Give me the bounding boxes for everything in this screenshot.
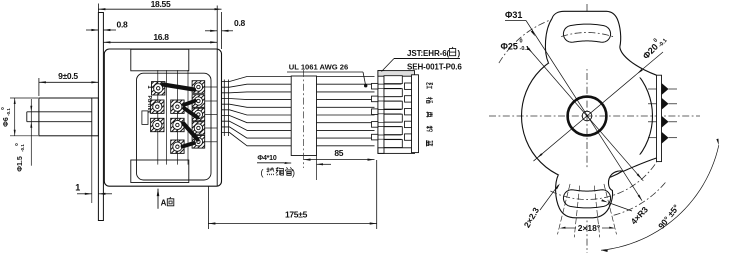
view arrow A xiang (157, 189, 159, 209)
dim phi1.5 (30, 99, 32, 166)
svg-text:85: 85 (334, 148, 343, 158)
wire exit triangles (662, 83, 669, 95)
wire exit housing bar (657, 75, 662, 161)
svg-text:9±0.5: 9±0.5 (58, 71, 78, 81)
top ear slot (563, 24, 610, 42)
coil lead wires vertical (157, 70, 159, 165)
tube length arrow right (317, 163, 332, 165)
phi31 ear arc bottom right dashdot (614, 182, 666, 215)
bottom ear notch curve (624, 158, 657, 171)
jumper wire 3 (185, 109, 198, 118)
motor shaft (27, 111, 92, 113)
small box on PCB (142, 111, 148, 125)
svg-text:A: A (161, 198, 167, 207)
motor body circle phi20 (522, 51, 653, 182)
terminal tips (405, 83, 412, 89)
svg-text:-0.1: -0.1 (20, 144, 25, 152)
connector right strip (412, 75, 419, 153)
top mounting ear (545, 11, 656, 79)
svg-text:Φ4*10: Φ4*10 (257, 155, 276, 162)
wire bundle (222, 77, 375, 82)
jumper wire 2 (184, 101, 195, 105)
jumper wire 5 (183, 143, 195, 147)
svg-text:Φ1.5: Φ1.5 (17, 156, 24, 172)
boss circle phi6 thick (568, 97, 607, 136)
exit pad R3 (192, 108, 205, 121)
jumper wire 4 (184, 124, 198, 140)
dim phi6 (10, 97, 38, 99)
solder pad B2 (171, 100, 184, 113)
connector teeth (384, 76, 402, 84)
tube centerline (303, 70, 305, 168)
dim line phi20 diagonal (533, 52, 663, 161)
dim line phi25 diagonal (527, 47, 644, 181)
solder pad A3 (151, 118, 164, 131)
svg-text:Φ31: Φ31 (505, 10, 522, 20)
svg-text:(: ( (261, 168, 264, 178)
dim 9 pm 0.5 (38, 78, 40, 96)
bolt circle arc through bottom slot (550, 156, 660, 199)
svg-text:UL 1061 AWG 26: UL 1061 AWG 26 (289, 62, 349, 71)
motor can body (104, 49, 221, 186)
tube right edge extension (316, 156, 318, 181)
svg-text:175±5: 175±5 (285, 210, 308, 220)
bearing boss cylinder (39, 98, 99, 136)
svg-text:0.8: 0.8 (234, 18, 245, 28)
solder pad B4 (171, 140, 184, 153)
bottom ear slot (563, 190, 610, 208)
svg-text:Φ6: Φ6 (3, 117, 10, 127)
extension line flange front (97, 4, 99, 13)
solder pad A2 (151, 100, 164, 113)
wire ends at connector (372, 83, 378, 89)
bolt circle arc through top slot (561, 33, 614, 38)
dim 175 pm 5 (207, 187, 209, 230)
svg-text:0: 0 (520, 39, 523, 45)
dim line phi31 diagonal (526, 21, 642, 201)
svg-text:JST:EHR-6(: JST:EHR-6( (407, 49, 450, 58)
centerline vertical (586, 4, 588, 253)
crimp terminals in gaps (378, 83, 402, 85)
svg-text:Pb-free: Pb-free (146, 96, 152, 114)
lead-out stubs right (205, 86, 218, 88)
svg-text:18.55: 18.55 (151, 0, 171, 9)
exit pad R1 (192, 81, 205, 94)
svg-text:SEH-001T-P0.6: SEH-001T-P0.6 (407, 63, 462, 72)
dim 16.8 (103, 41, 217, 43)
terminal PCB (137, 73, 212, 180)
label phi20 rotated with tolerance (640, 33, 669, 62)
wire clamp ticks (223, 80, 225, 137)
exit pad R4 (192, 122, 205, 135)
svg-text:Φ25: Φ25 (501, 41, 518, 51)
connector bottom cap (378, 148, 415, 154)
exit pad R2 (192, 95, 205, 108)
svg-text:-0.1: -0.1 (6, 108, 11, 116)
centerline horizontal (489, 115, 700, 117)
can right wall inner line (216, 50, 218, 186)
svg-text:16.8: 16.8 (153, 32, 169, 42)
arc 90 deg pm 5 (601, 145, 719, 250)
svg-text:-0.1: -0.1 (520, 46, 529, 52)
exit pad R5 (192, 136, 205, 149)
connector top cap (378, 71, 415, 77)
stator top block (131, 49, 189, 71)
bottom mounting ear (556, 155, 657, 218)
top ear notch curve (620, 47, 657, 75)
svg-text:1: 1 (75, 183, 80, 193)
shaft circle phi1.5 (582, 111, 592, 121)
extension lines can right wall (216, 6, 218, 50)
solder pad B3 (171, 118, 184, 131)
dim 85 (304, 159, 375, 161)
wire color labels (427, 83, 433, 89)
connector spine (378, 71, 384, 154)
svg-text:0.8: 0.8 (117, 20, 128, 30)
radial lines 2x18 (574, 186, 579, 238)
heat shrink tube (291, 76, 316, 156)
svg-text:): ) (292, 168, 295, 178)
svg-text:2×18°: 2×18° (578, 223, 601, 233)
svg-text:): ) (458, 49, 461, 58)
dim 18.55 top (98, 8, 221, 10)
solder pad A1 (152, 82, 165, 95)
boss rear face line and extension (91, 98, 93, 136)
phi31 ear arc top left dashdot (499, 16, 564, 63)
mounting flange plate (98, 13, 103, 221)
stator bottom block (131, 160, 189, 183)
jumper wire 1 (163, 85, 194, 90)
